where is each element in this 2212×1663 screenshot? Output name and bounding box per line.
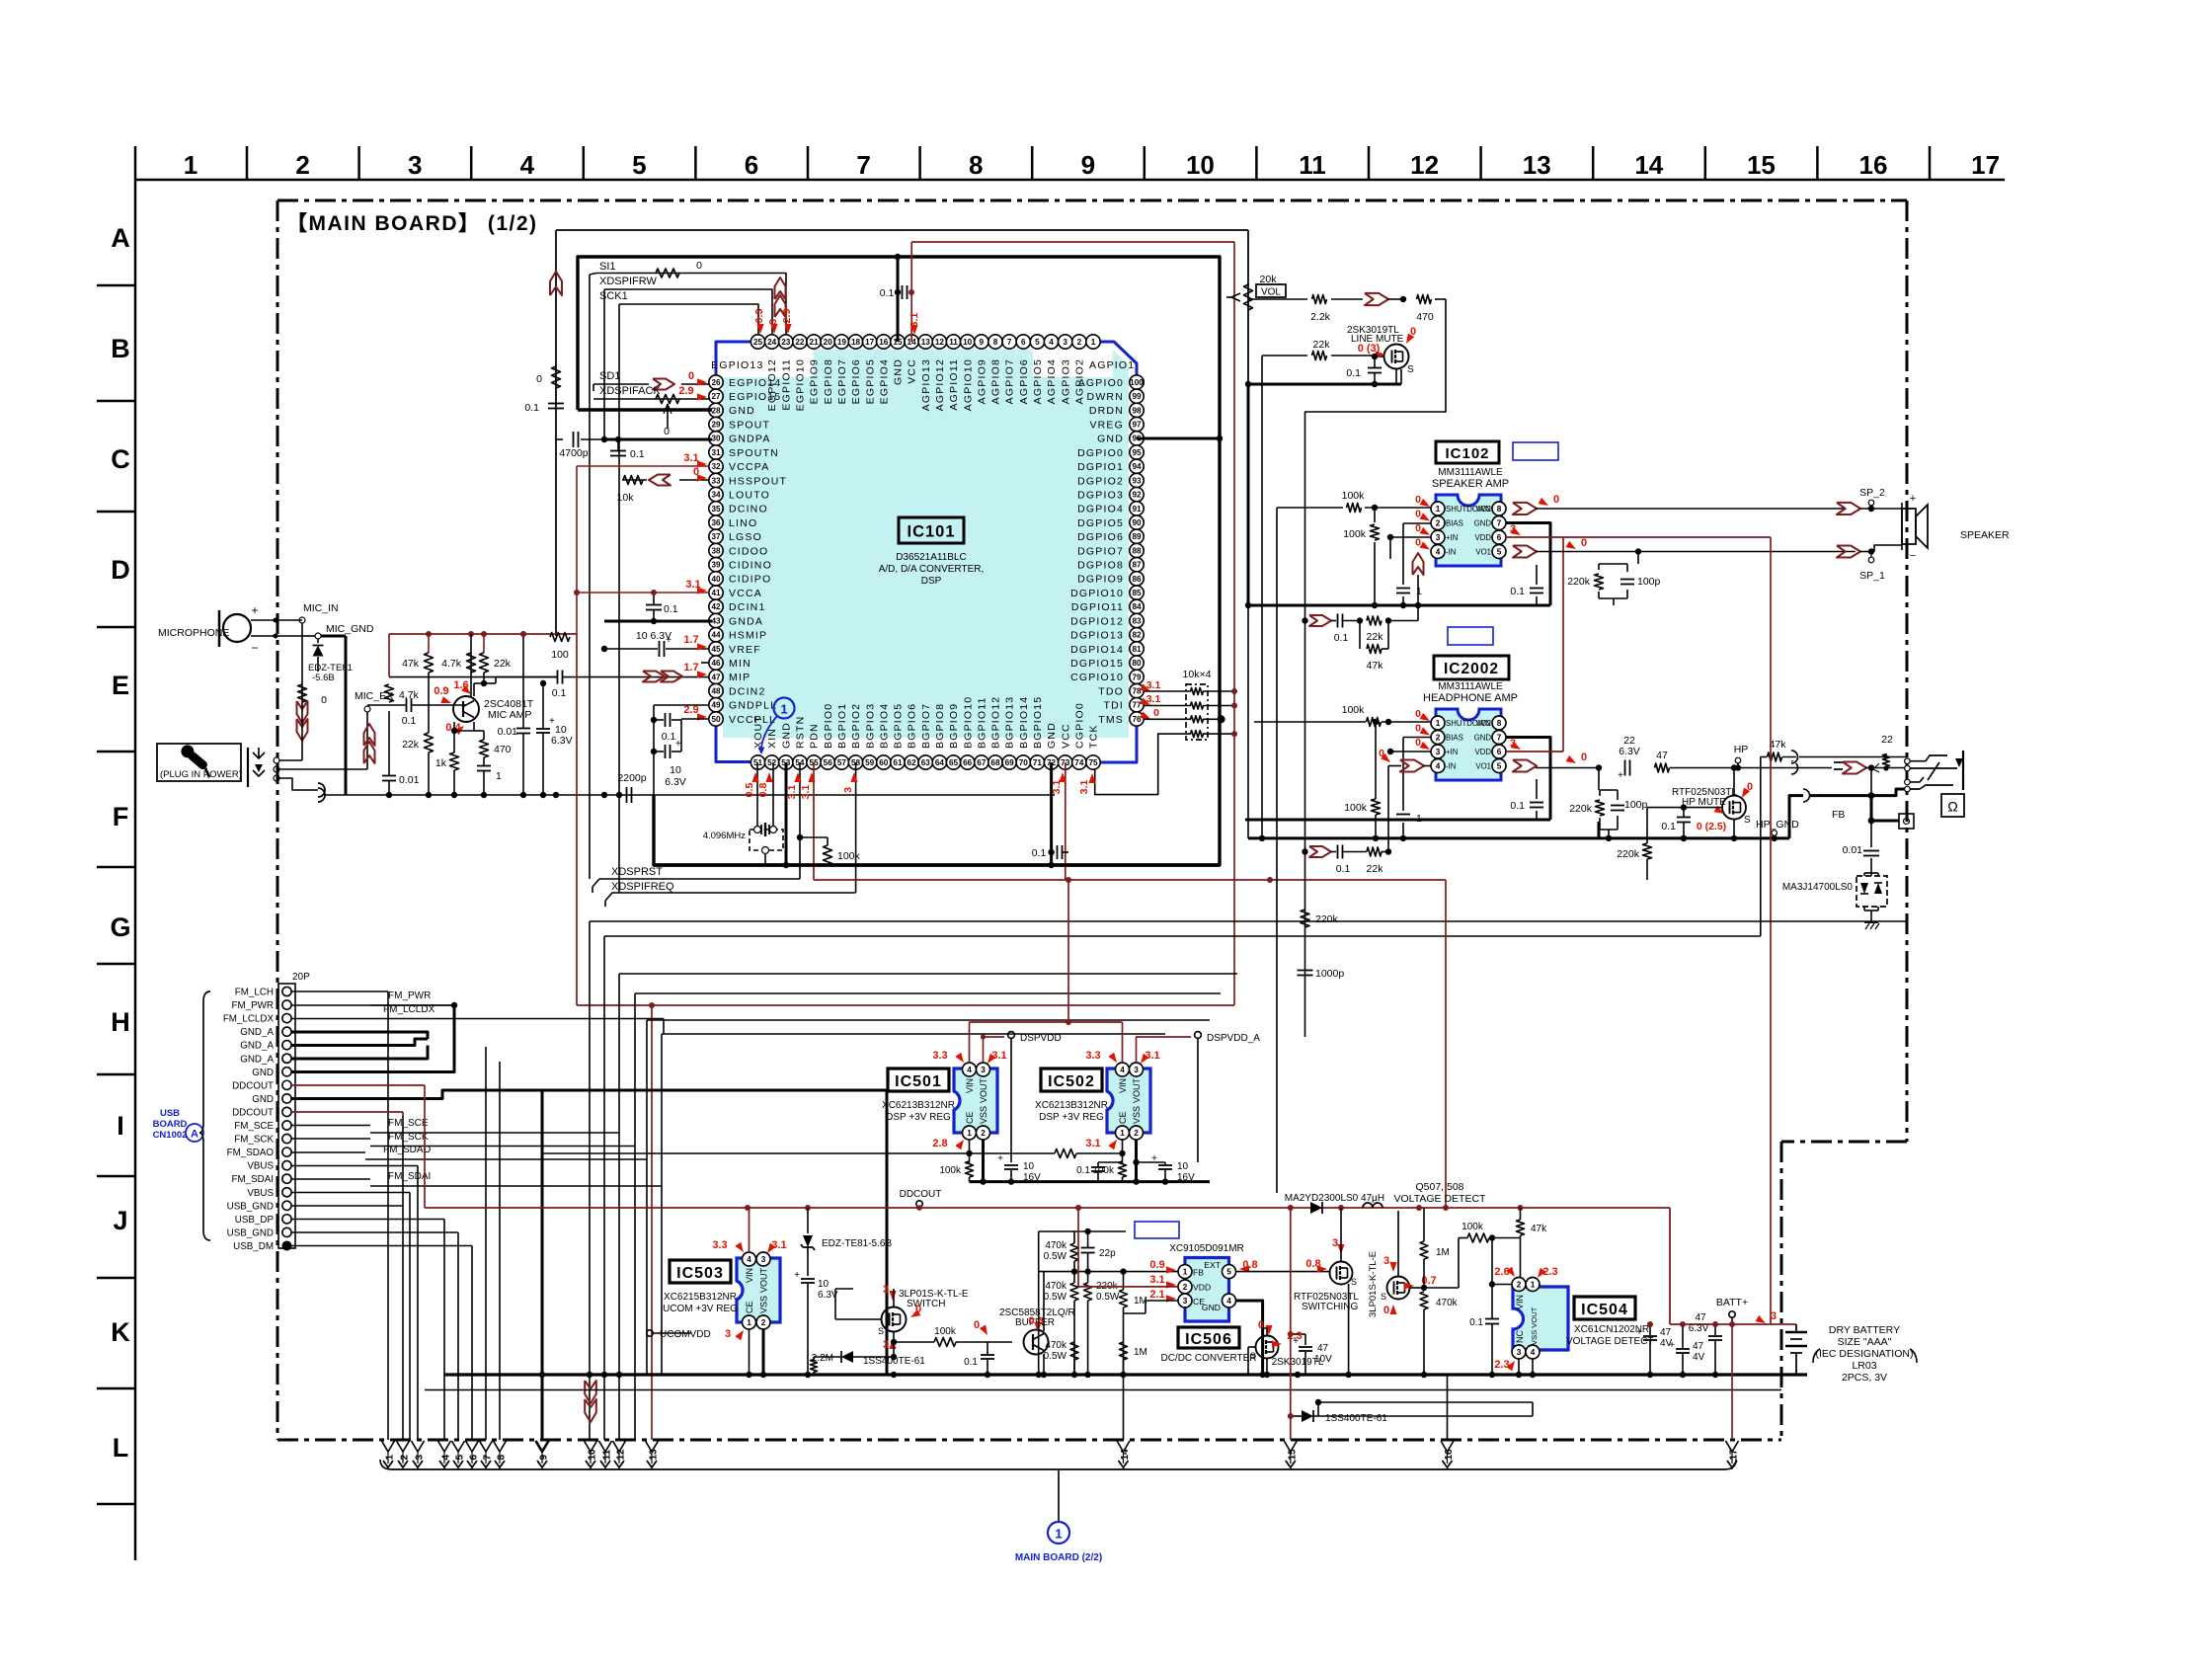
wire FM_PWR [291, 1004, 454, 1006]
svg-text:MIC_IN: MIC_IN [303, 602, 339, 614]
IC506 pin 4 GND [1223, 1294, 1236, 1307]
svg-text:0.1: 0.1 [1510, 800, 1525, 812]
resistor 4.7k MIC_EX [385, 684, 394, 702]
svg-text:59: 59 [865, 758, 875, 767]
resistor 100k buffer base [934, 1338, 956, 1347]
transistor Q503 3LP01S-K-TL-E SWITCH [882, 1307, 907, 1332]
thick wire y=389 [1248, 383, 1401, 386]
wire VO1 pin5 [1513, 546, 1537, 558]
svg-text:5: 5 [632, 150, 646, 180]
USB connector brace [199, 991, 210, 1240]
resistor 100k IC2002 bias vertical [1372, 799, 1381, 815]
white patch under AGPIO1 label [1033, 350, 1113, 377]
svg-text:15: 15 [1747, 150, 1776, 180]
maroon bus y=1018 [577, 1004, 1234, 1006]
svg-text:SI1: SI1 [599, 261, 616, 273]
svg-text:2200p: 2200p [617, 772, 646, 784]
capacitor 0.1 buffer [981, 1354, 994, 1356]
mic jack symbol [247, 748, 249, 787]
svg-text:0.1: 0.1 [662, 731, 676, 743]
IC101 top pin row pins 25-1 [750, 335, 764, 349]
svg-text:SPEAKER: SPEAKER [1960, 529, 2010, 541]
connector arrow up at x=563 [550, 272, 562, 295]
IC501 pin 3 VOUT [977, 1063, 990, 1076]
wire IC501 VSS down thick [982, 1140, 985, 1182]
wire long bus y=1033 [647, 1019, 1210, 1021]
capacitor 0.01 and 10 6.3V at mic amp out [516, 728, 530, 730]
capacitor 0.1 at pin50 [665, 713, 667, 727]
IC101 blue corner wires [716, 342, 750, 374]
wire bundle verticals to bottom connector [485, 1047, 487, 1440]
svg-text:HP: HP [1734, 744, 1749, 755]
svg-text:0: 0 [1258, 1319, 1264, 1331]
wire BIAS pin2 IC2002 [1403, 737, 1431, 739]
svg-text:VSS: VSS [979, 1106, 988, 1124]
wire BGPIO2 pin58 to XDSPIFREQ [855, 762, 857, 893]
svg-text:VOUT: VOUT [1132, 1078, 1142, 1104]
wire VO2 pin8 [1513, 503, 1537, 515]
IC2002 pin 8 VO2 [1492, 716, 1506, 730]
svg-text:4: 4 [1531, 1348, 1536, 1357]
svg-text:40: 40 [711, 575, 721, 584]
svg-text:0: 0 [688, 370, 694, 382]
svg-text:XC6213B312NR: XC6213B312NR [882, 1100, 955, 1111]
svg-text:47k: 47k [402, 658, 420, 670]
svg-text:14: 14 [1120, 1449, 1131, 1461]
svg-text:EGPIO8: EGPIO8 [823, 358, 834, 404]
wire vertical x=1278 gate feed [1261, 385, 1263, 838]
svg-text:VDD: VDD [1193, 1283, 1211, 1293]
transistor Q101 2SC4081T MIC AMP [453, 696, 479, 722]
svg-text:8: 8 [497, 1455, 508, 1461]
connector arrow left on HSSPOUT [649, 475, 671, 486]
wire MIP pin47 [389, 676, 557, 678]
plug in power box [157, 744, 241, 781]
maroon edge connector 15 drop [1290, 1208, 1292, 1440]
svg-text:FM_SCK: FM_SCK [388, 1132, 429, 1143]
wire IC503 CE VSS down [749, 1329, 750, 1375]
converter U IC506 label box [1178, 1327, 1239, 1348]
connector arrow double down mic [297, 701, 308, 723]
wire GNDA pin43 thick [604, 620, 712, 623]
connector pin 16 VBUS [282, 1188, 291, 1197]
svg-text:−: − [251, 641, 258, 655]
resistor 100k voltage detect [1467, 1233, 1489, 1242]
svg-text:IC502: IC502 [1048, 1073, 1095, 1090]
ground arrow on GND wire [667, 404, 669, 429]
svg-text:Ω: Ω [1947, 799, 1957, 815]
maroon drop to edge connector 17 [1731, 1324, 1733, 1440]
capacitor 0.1 line mute [1368, 367, 1382, 369]
svg-text:6: 6 [1021, 338, 1026, 347]
svg-text:XC9105D091MR: XC9105D091MR [1169, 1243, 1244, 1254]
wire GND pin7 IC102 thick [1506, 523, 1550, 606]
svg-text:CN1002: CN1002 [153, 1130, 188, 1141]
svg-text:0: 0 [1383, 1305, 1389, 1316]
wire switch gate [835, 1318, 881, 1320]
wire vertical x=1264 VOL [1247, 230, 1249, 605]
svg-text:25: 25 [753, 338, 763, 347]
svg-text:22: 22 [795, 338, 805, 347]
svg-text:DGPIO4: DGPIO4 [1077, 504, 1124, 515]
svg-text:3.1: 3.1 [991, 1050, 1006, 1062]
svg-text:+: + [1636, 1327, 1642, 1338]
svg-text:MIC AMP: MIC AMP [488, 709, 531, 721]
svg-text:17: 17 [1729, 1449, 1740, 1461]
svg-text:DCIN2: DCIN2 [729, 685, 766, 697]
board edge connector 4 [438, 1441, 451, 1452]
wire VDD pin6 IC2002 maroon [1506, 751, 1563, 752]
svg-text:FM_SCE: FM_SCE [388, 1118, 429, 1129]
svg-text:3.1: 3.1 [800, 785, 812, 800]
svg-text:2.8: 2.8 [932, 1138, 947, 1149]
svg-text:VO2: VO2 [1475, 719, 1491, 728]
IC101 left pin column pins 26-50 [709, 375, 723, 389]
svg-text:41: 41 [711, 589, 721, 597]
svg-text:3: 3 [883, 1284, 889, 1296]
ground symbol below diode pair [1864, 921, 1878, 923]
svg-text:SP_1: SP_1 [1859, 570, 1885, 582]
svg-text:81: 81 [1132, 645, 1142, 654]
voltage detect U IC504 body [1513, 1287, 1568, 1350]
board edge connector 11 [599, 1441, 612, 1452]
wire top horizontal y=233 [556, 229, 1248, 231]
svg-text:47k: 47k [1770, 739, 1787, 751]
svg-text:22k: 22k [1367, 631, 1384, 643]
wire line mute source to bus [1395, 369, 1397, 384]
svg-text:68: 68 [990, 758, 1000, 767]
svg-text:32: 32 [711, 462, 721, 471]
svg-text:GND: GND [1202, 1303, 1221, 1312]
svg-text:CIDOO: CIDOO [729, 545, 768, 557]
svg-text:13: 13 [921, 338, 931, 347]
svg-text:BGPIO9: BGPIO9 [948, 703, 960, 749]
svg-text:3.1: 3.1 [1145, 1050, 1159, 1062]
resistor 1M lower [1120, 1342, 1128, 1360]
svg-text:64: 64 [935, 758, 945, 767]
svg-text:VIN: VIN [745, 1268, 754, 1283]
svg-text:0: 0 [536, 373, 542, 385]
svg-text:VO1: VO1 [1475, 762, 1491, 771]
svg-text:38: 38 [711, 546, 721, 555]
svg-text:DGPIO11: DGPIO11 [1071, 601, 1124, 613]
svg-text:USB: USB [160, 1108, 180, 1119]
svg-text:AGPIO1: AGPIO1 [1089, 359, 1135, 371]
svg-text:220k: 220k [1315, 913, 1339, 925]
maroon vertical x=584 from mic area [576, 634, 578, 1005]
connector pin 10 DDCOUT [282, 1107, 291, 1116]
svg-text:GND: GND [1046, 722, 1058, 749]
svg-text:47k: 47k [1531, 1224, 1547, 1234]
svg-text:89: 89 [1132, 532, 1142, 541]
svg-text:DGPIO3: DGPIO3 [1077, 489, 1124, 501]
IC502 pin 2 VSS [1130, 1126, 1144, 1140]
battery B1 cells [1795, 1324, 1797, 1332]
svg-text:83: 83 [1132, 616, 1142, 625]
svg-text:17: 17 [1971, 150, 2000, 180]
svg-text:20: 20 [824, 338, 833, 347]
svg-text:DGPIO9: DGPIO9 [1077, 574, 1124, 586]
voltage regulator U IC502 body [1107, 1069, 1150, 1133]
IC2002 pin 1 SHUTDOWN [1431, 716, 1445, 730]
svg-text:3.3: 3.3 [932, 1050, 947, 1062]
svg-text:22: 22 [1881, 734, 1893, 746]
connector arrow right 2.2k [1365, 293, 1388, 305]
svg-text:1: 1 [496, 770, 502, 782]
blue box above IC2002 [1448, 627, 1493, 645]
connector pin 2 FM_PWR [282, 1000, 291, 1009]
svg-text:DGPIO15: DGPIO15 [1070, 658, 1124, 670]
svg-text:1: 1 [1531, 1280, 1536, 1289]
wire hop arc upper HP line [1791, 751, 1798, 763]
IC503 pin 1 CE [743, 1315, 756, 1329]
wire MIN pin46 stub [701, 662, 709, 664]
svg-text:97: 97 [1132, 421, 1142, 430]
voltage regulator U IC502 label box [1041, 1069, 1102, 1091]
IC102 pin 6 VDD [1492, 530, 1506, 544]
svg-text:GND: GND [893, 358, 905, 385]
capacitor 10 6.3V at pin45 [659, 641, 661, 657]
border frame top ruler line [135, 179, 2005, 182]
wire vertical x=1264 below bus [1247, 605, 1249, 838]
svg-text:11: 11 [949, 338, 958, 347]
svg-text:3: 3 [883, 1339, 889, 1351]
connector pin 19 USB_GND [282, 1227, 291, 1236]
board edge connector 2 [397, 1441, 410, 1452]
IC504 pin 1 [1526, 1278, 1540, 1292]
connector pin 18 USB_DP [282, 1215, 291, 1224]
wire GND_A thick jogs [291, 1032, 428, 1039]
maroon feed mic area [389, 633, 577, 635]
resistor 100 mic [550, 633, 570, 642]
svg-text:84: 84 [1132, 602, 1142, 611]
svg-text:XDSPIFACK: XDSPIFACK [599, 385, 661, 397]
wire GND pin53 thick down [785, 762, 788, 865]
wire +IN pin3 IC2002 [1390, 751, 1431, 752]
svg-text:66: 66 [963, 758, 973, 767]
wire long bus y=1006 [635, 992, 1221, 994]
thick outer rect around SI1 group [578, 257, 1220, 865]
svg-text:A/D, D/A CONVERTER,: A/D, D/A CONVERTER, [879, 564, 985, 575]
wire long bus y=933 [590, 920, 1907, 922]
op-amp U IC102 body [1436, 495, 1501, 566]
IC504 pin 4 VOUT [1526, 1345, 1540, 1359]
svg-text:GND: GND [1474, 519, 1492, 528]
svg-text:1: 1 [184, 150, 197, 180]
transistor Q507 3LP01S [1387, 1277, 1410, 1300]
svg-text:+: + [1618, 770, 1623, 781]
svg-text:EGPIO15: EGPIO15 [729, 391, 781, 403]
maroon supply rail into IC501 IC502 [969, 1022, 971, 1063]
svg-text:13: 13 [649, 1449, 660, 1461]
IC501 pin 2 VSS [977, 1126, 990, 1140]
svg-text:XIN: XIN [766, 728, 778, 749]
capacitor 47 4V a [1643, 1335, 1657, 1337]
svg-text:0.01: 0.01 [1843, 844, 1863, 856]
board edge connector 7 [480, 1441, 493, 1452]
svg-text:57: 57 [837, 758, 847, 767]
svg-text:XDSPIFRW: XDSPIFRW [599, 276, 657, 287]
svg-text:BIAS: BIAS [1446, 519, 1463, 528]
svg-text:4.7k: 4.7k [441, 658, 462, 670]
wire hop arcs at mic jack [318, 783, 325, 797]
resistor 470k 0.5W col2 [1070, 1283, 1078, 1301]
headphone jack [1905, 758, 1911, 764]
svg-text:AGPIO12: AGPIO12 [934, 358, 946, 411]
svg-text:XC6213B312NR: XC6213B312NR [1035, 1100, 1108, 1111]
svg-text:470k: 470k [1045, 1281, 1067, 1292]
board edge connector 8 [494, 1441, 507, 1452]
svg-text:DGPIO14: DGPIO14 [1070, 644, 1124, 656]
connector pin 7 GND [282, 1068, 291, 1076]
svg-text:75: 75 [1088, 758, 1098, 767]
svg-text:SWITCHING: SWITCHING [1302, 1302, 1358, 1312]
svg-text:6: 6 [469, 1455, 480, 1461]
svg-text:14: 14 [1634, 150, 1663, 180]
node UCOMVDD [647, 1330, 653, 1336]
wire IC506 EXT right [1236, 1271, 1330, 1273]
svg-text:0.01: 0.01 [498, 726, 518, 738]
resistor 2.2k [1312, 295, 1327, 304]
svg-text:CIDINO: CIDINO [729, 560, 772, 572]
svg-text:7: 7 [1007, 338, 1012, 347]
svg-text:EGPIO14: EGPIO14 [729, 377, 781, 389]
svg-text:2: 2 [981, 1129, 986, 1138]
connector pin 15 FM_SDAI [282, 1174, 291, 1183]
connector arrow at HP jack [1843, 762, 1866, 774]
svg-text:1: 1 [1183, 1268, 1188, 1277]
svg-text:0.5W: 0.5W [1044, 1351, 1067, 1362]
svg-text:6: 6 [745, 150, 758, 180]
svg-text:2: 2 [295, 150, 309, 180]
wire RSTN pin54 to XDSPRST [799, 762, 801, 879]
svg-text:6.3V: 6.3V [551, 735, 573, 747]
svg-text:2.3: 2.3 [1494, 1359, 1509, 1371]
svg-text:50: 50 [711, 715, 721, 724]
resistor 470 [1417, 295, 1432, 304]
svg-text:10: 10 [963, 338, 973, 347]
gnd bus under IC501 IC502 [970, 1180, 1211, 1183]
svg-text:VREG: VREG [1089, 419, 1124, 431]
board edge connector 14 [1117, 1441, 1130, 1452]
svg-text:FM_SDAO: FM_SDAO [227, 1148, 275, 1158]
crystal X101 4.096MHz [750, 830, 783, 850]
IC2002 pin 2 BIAS [1431, 731, 1445, 745]
svg-text:8: 8 [1497, 719, 1502, 728]
svg-text:12: 12 [935, 338, 945, 347]
svg-text:34: 34 [711, 491, 721, 500]
ruler column tick marks [246, 146, 249, 180]
svg-text:16: 16 [1444, 1449, 1455, 1461]
svg-text:EXT: EXT [1204, 1260, 1221, 1270]
svg-text:EGPIO11: EGPIO11 [780, 358, 792, 411]
resistor 470k Q507 [1420, 1292, 1428, 1309]
svg-text:100p: 100p [1624, 799, 1648, 811]
resistor 100k bias vertical [1371, 524, 1380, 540]
svg-text:5: 5 [1497, 761, 1502, 770]
svg-text:DCIN1: DCIN1 [729, 601, 766, 613]
svg-text:220k: 220k [1617, 848, 1640, 860]
wire GND pin15 thick up [897, 257, 900, 342]
svg-text:0.8: 0.8 [757, 783, 769, 798]
svg-text:USB_GND: USB_GND [227, 1201, 274, 1212]
node DSPVDD [984, 1037, 1005, 1063]
svg-text:12: 12 [616, 1449, 627, 1461]
wire x=1895 jack sleeve [1870, 768, 1872, 796]
svg-text:LGSO: LGSO [729, 531, 762, 543]
svg-text:0.1: 0.1 [1076, 1165, 1090, 1176]
board edge connector 3 [412, 1441, 425, 1452]
svg-text:VCCPA: VCCPA [729, 461, 769, 473]
svg-text:BGPIO0: BGPIO0 [823, 703, 834, 749]
FB feedback line IC506 [1039, 1271, 1179, 1273]
board edge connector 6 [466, 1441, 479, 1452]
wire GND thick 1 [291, 1005, 454, 1072]
svg-text:2.9: 2.9 [683, 704, 698, 716]
svg-text:2.9: 2.9 [678, 385, 693, 397]
svg-text:VDD: VDD [1475, 533, 1492, 542]
IC501 pin 1 CE [963, 1126, 977, 1140]
resistor 4.7k mic [467, 653, 476, 673]
svg-text:7: 7 [1497, 733, 1502, 742]
svg-text:74: 74 [1074, 758, 1084, 767]
connector pin 12 FM_SCK [282, 1134, 291, 1143]
FB thick wire [1789, 796, 1803, 838]
svg-text:17: 17 [865, 338, 875, 347]
svg-text:470k: 470k [1436, 1298, 1459, 1308]
svg-text:10: 10 [670, 764, 681, 776]
svg-text:1k: 1k [435, 757, 447, 769]
voltage regulator U IC501 body [954, 1069, 997, 1133]
capacitor 0.1 HP mute gate [1677, 817, 1691, 819]
svg-text:3: 3 [761, 1255, 766, 1264]
svg-text:VCC: VCC [907, 358, 918, 384]
resistor 100k IC502 [1119, 1161, 1127, 1177]
svg-text:4: 4 [441, 1455, 452, 1461]
svg-text:61: 61 [893, 758, 903, 767]
svg-text:BGPIO4: BGPIO4 [878, 703, 890, 749]
svg-text:3: 3 [1771, 1310, 1777, 1322]
wire second bottom line [425, 1389, 1781, 1391]
svg-text:0: 0 [1553, 494, 1559, 506]
svg-text:TMS: TMS [1098, 714, 1124, 726]
resistor 0 below MIC_IN [298, 684, 307, 702]
board edge connector 17 [1726, 1441, 1739, 1452]
svg-text:BGPIO7: BGPIO7 [920, 703, 932, 749]
svg-text:AGPIO3: AGPIO3 [1060, 358, 1071, 404]
svg-text:DCINO: DCINO [729, 504, 768, 515]
svg-text:MM3111AWLE: MM3111AWLE [1438, 681, 1503, 692]
svg-text:BGPIO14: BGPIO14 [1018, 696, 1030, 749]
svg-text:2.9: 2.9 [781, 309, 793, 324]
svg-text:BGPIO8: BGPIO8 [934, 703, 946, 749]
IC102 pin 4 -IN [1431, 545, 1445, 559]
svg-text:43: 43 [711, 616, 721, 625]
svg-text:0: 0 [1153, 707, 1159, 719]
wire GND pin72 thick down [1050, 762, 1053, 865]
svg-text:GND: GND [1097, 434, 1124, 445]
svg-text:A: A [191, 1129, 198, 1141]
board edge connector 13 [646, 1441, 659, 1452]
svg-text:0.1: 0.1 [402, 715, 417, 727]
wires FM nets to bundle [291, 1125, 370, 1127]
svg-text:1M: 1M [1134, 1347, 1147, 1358]
wire 470 to IC2002 feed [1305, 299, 1447, 1037]
svg-text:2: 2 [1077, 338, 1082, 347]
svg-text:3: 3 [1517, 1348, 1522, 1357]
svg-text:0.5W: 0.5W [1044, 1251, 1067, 1262]
svg-text:3: 3 [1134, 1066, 1139, 1074]
